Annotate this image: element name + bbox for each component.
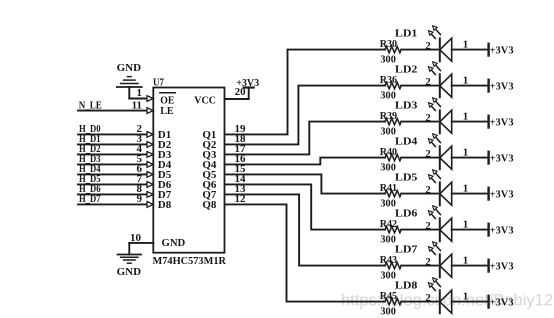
wire LD6 pin 1 to +3V3: [452, 229, 488, 231]
wire LD2 pin 1 to +3V3: [452, 85, 488, 87]
pin 1 input arrow: [147, 96, 153, 102]
pin 15 number label: [235, 163, 247, 175]
IC U7 pin name D2: [158, 139, 172, 151]
IC U7 pin name OE (pin 1): [160, 93, 175, 107]
wire Q1 (pin 19) to R30: [225, 50, 386, 135]
IC U7 pin name LE (pin 11): [160, 105, 174, 117]
net label H_D0: [79, 123, 101, 135]
resistor R40 300: [380, 146, 402, 174]
wire R43 to LD7 pin 2: [401, 265, 439, 267]
IC U7 pin name Q4: [202, 159, 217, 171]
LED designator LD5 label: [395, 172, 418, 184]
power +3V3 terminal (pin 20): [236, 77, 259, 89]
IC U7 pin name D6: [158, 179, 172, 191]
net label N_LE: [79, 99, 102, 111]
svg-text:Q8: Q8: [202, 199, 217, 211]
power +3V3 terminal (LD1): [489, 44, 514, 57]
LED LD8 pin 1 label: [463, 290, 469, 302]
LED LD5 pin 1 label: [463, 182, 469, 194]
svg-text:2: 2: [425, 148, 431, 160]
LED LD8: [428, 278, 451, 314]
LED LD2 pin 1 label: [463, 74, 469, 86]
IC U7 pin name D1: [158, 129, 171, 141]
LED LD1: [428, 26, 451, 62]
pin 14 number label: [235, 173, 247, 185]
wire Q8 (pin 12) to R45: [225, 204, 386, 301]
wire R45 to LD8 pin 2: [401, 301, 439, 303]
wire R39 to LD3 pin 2: [401, 121, 439, 123]
svg-text:LD6: LD6: [395, 208, 418, 220]
svg-text:H_D7: H_D7: [79, 193, 101, 205]
LED designator LD6 label: [395, 208, 418, 220]
svg-text:+3V3: +3V3: [490, 261, 514, 273]
svg-text:U7: U7: [153, 76, 164, 88]
ground (bottom, at pin 10 GND): [117, 255, 142, 278]
svg-text:9: 9: [137, 193, 143, 205]
svg-text:R41: R41: [380, 182, 397, 194]
IC U7 pin name GND (pin 10): [162, 237, 186, 249]
pin 5 input arrow: [147, 162, 153, 168]
pin 17 number label: [235, 143, 247, 155]
LED LD2 pin 2 label: [425, 76, 431, 88]
svg-text:10: 10: [130, 232, 142, 244]
svg-text:11: 11: [132, 99, 142, 111]
svg-text:VCC: VCC: [194, 95, 216, 107]
resistor R45 300: [380, 290, 402, 318]
pin 11 input arrow: [147, 108, 153, 114]
net H_D1 wire: [78, 143, 147, 145]
wire Q5 (pin 15) to R41: [225, 174, 386, 193]
wire Q2 (pin 18) to R36: [225, 86, 386, 145]
LED designator LD4 label: [395, 136, 418, 148]
pin 9 input arrow: [147, 202, 153, 208]
svg-text:1: 1: [463, 146, 469, 158]
net H_D4 wire: [78, 173, 147, 175]
LED LD7 pin 1 label: [463, 254, 469, 266]
wire R36 to LD2 pin 2: [401, 85, 439, 87]
resistor R36 300: [380, 74, 402, 102]
LED LD3 pin 2 label: [425, 112, 431, 124]
LED LD8 pin 2 label: [425, 292, 431, 304]
svg-text:2: 2: [425, 112, 431, 124]
LED LD3: [428, 98, 451, 134]
wire LD7 pin 1 to +3V3: [452, 265, 488, 267]
svg-text:GND: GND: [162, 237, 186, 249]
pin 13 number label: [235, 183, 247, 195]
wire LD8 pin 1 to +3V3: [452, 301, 488, 303]
net label H_D1: [79, 133, 101, 145]
IC U7 pin name VCC (pin 20): [194, 95, 216, 107]
LED LD6 pin 2 label: [425, 220, 431, 232]
power +3V3 terminal (LD8): [489, 296, 514, 309]
pin 19 number label: [235, 123, 247, 135]
net label H_D7: [79, 193, 101, 205]
svg-text:LD3: LD3: [395, 100, 418, 112]
svg-text:R42: R42: [380, 218, 398, 230]
svg-text:N_LE: N_LE: [79, 99, 102, 111]
pin 10 number label: [130, 232, 142, 244]
wire pin 20 to +3V3: [225, 88, 249, 99]
IC U7 pin name D5: [158, 169, 172, 181]
svg-text:1: 1: [463, 182, 469, 194]
IC U7 pin name Q6: [202, 179, 217, 191]
pin 1 number label: [137, 87, 143, 99]
pin 8 number label: [137, 183, 143, 195]
IC U7 pin name D4: [158, 159, 172, 171]
IC U7 M74HC573M1R body: [153, 76, 227, 267]
svg-text:D8: D8: [158, 199, 172, 211]
IC U7 pin name D8: [158, 199, 172, 211]
LED LD4 pin 1 label: [463, 146, 469, 158]
wire Q4 (pin 16) to R40: [225, 158, 386, 165]
pin 4 number label: [137, 143, 143, 155]
wire LD1 pin 1 to +3V3: [452, 49, 488, 51]
net H_D7 wire: [78, 203, 147, 205]
net label H_D2: [79, 143, 101, 155]
svg-text:1: 1: [463, 254, 469, 266]
pin 8 input arrow: [147, 192, 153, 198]
LED designator LD8 label: [395, 280, 418, 292]
svg-text:M74HC573M1R: M74HC573M1R: [153, 255, 227, 267]
svg-text:LE: LE: [160, 105, 174, 117]
svg-text:https://blog.csdn.net/Babiy12: https://blog.csdn.net/Babiy12: [341, 291, 553, 310]
svg-text:R40: R40: [380, 146, 398, 158]
pin 3 number label: [137, 133, 143, 145]
svg-text:R43: R43: [380, 254, 398, 266]
IC U7 pin name Q5: [202, 169, 217, 181]
LED LD1 pin 1 label: [463, 38, 469, 50]
net label H_D3: [79, 153, 101, 165]
wire R41 to LD5 pin 2: [401, 193, 439, 195]
net label H_D4: [79, 163, 101, 175]
svg-text:+3V3: +3V3: [490, 117, 514, 129]
wire Q7 (pin 13) to R43: [225, 194, 386, 265]
svg-text:+3V3: +3V3: [490, 189, 514, 201]
svg-text:+3V3: +3V3: [236, 77, 259, 89]
svg-text:LD2: LD2: [395, 64, 418, 76]
svg-text:+3V3: +3V3: [490, 45, 514, 57]
svg-text:+3V3: +3V3: [490, 81, 514, 93]
svg-text:2: 2: [425, 220, 431, 232]
LED LD4: [428, 134, 451, 170]
IC U7 pin name Q1: [202, 129, 216, 141]
svg-text:1: 1: [137, 87, 143, 99]
svg-text:LD7: LD7: [395, 244, 418, 256]
wire LD3 pin 1 to +3V3: [452, 121, 488, 123]
svg-text:1: 1: [463, 218, 469, 230]
pin 20 number label: [235, 86, 247, 98]
resistor R43 300: [380, 254, 402, 282]
wire pin 10 to ground: [129, 243, 153, 255]
svg-text:LD1: LD1: [395, 28, 418, 40]
pin 7 number label: [137, 173, 143, 185]
net H_D6 wire: [78, 193, 147, 195]
net H_D5 wire: [78, 183, 147, 185]
svg-text:1: 1: [463, 110, 469, 122]
pin 6 input arrow: [147, 172, 153, 178]
svg-text:GND: GND: [117, 266, 142, 278]
IC U7 pin name Q8: [202, 199, 217, 211]
IC U7 pin name Q2: [202, 139, 217, 151]
ground (top, at pin 1 OE): [117, 62, 142, 87]
svg-text:12: 12: [235, 193, 247, 205]
svg-text:1: 1: [463, 74, 469, 86]
LED LD3 pin 1 label: [463, 110, 469, 122]
power +3V3 terminal (LD4): [489, 152, 514, 165]
svg-text:2: 2: [425, 184, 431, 196]
wire Q6 (pin 14) to R42: [225, 184, 386, 229]
LED LD4 pin 2 label: [425, 148, 431, 160]
IC U7 pin name Q7: [202, 189, 217, 201]
svg-text:+3V3: +3V3: [490, 153, 514, 165]
LED LD6: [428, 206, 451, 242]
wire Q3 (pin 17) to R39: [225, 122, 386, 155]
pin 9 number label: [137, 193, 143, 205]
power +3V3 terminal (LD2): [489, 80, 514, 93]
svg-text:2: 2: [425, 76, 431, 88]
wire LD5 pin 1 to +3V3: [452, 193, 488, 195]
resistor R39 300: [380, 110, 402, 138]
pin 18 number label: [235, 133, 247, 145]
svg-text:LD5: LD5: [395, 172, 418, 184]
LED LD5: [428, 170, 451, 206]
LED designator LD1 label: [395, 28, 418, 40]
net label H_D5: [79, 173, 101, 185]
LED designator LD3 label: [395, 100, 418, 112]
wire LD4 pin 1 to +3V3: [452, 157, 488, 159]
pin 7 input arrow: [147, 182, 153, 188]
power +3V3 terminal (LD7): [489, 260, 514, 273]
wire ground to pin 1: [129, 87, 147, 99]
svg-text:2: 2: [425, 256, 431, 268]
svg-text:1: 1: [463, 38, 469, 50]
net H_D0 wire: [78, 133, 147, 135]
pin 3 input arrow: [147, 142, 153, 148]
wire R40 to LD4 pin 2: [401, 157, 439, 159]
svg-text:R39: R39: [380, 110, 398, 122]
power +3V3 terminal (LD3): [489, 116, 514, 129]
pin 2 input arrow: [147, 132, 153, 138]
wire R30 to LD1 pin 2: [401, 49, 439, 51]
net label H_D6: [79, 183, 101, 195]
pin 5 number label: [137, 153, 143, 165]
pin 2 number label: [137, 123, 143, 135]
resistor R41 300: [380, 182, 402, 210]
pin 16 number label: [235, 153, 247, 165]
resistor R30 300: [380, 38, 402, 66]
svg-text:+3V3: +3V3: [490, 225, 514, 237]
power +3V3 terminal (LD5): [489, 188, 514, 201]
pin 6 number label: [137, 163, 143, 175]
LED LD7 pin 2 label: [425, 256, 431, 268]
LED designator LD2 label: [395, 64, 418, 76]
resistor R42 300: [380, 218, 402, 246]
IC U7 pin name Q3: [202, 149, 217, 161]
IC U7 pin name D3: [158, 149, 172, 161]
LED LD1 pin 2 label: [425, 40, 431, 52]
LED LD6 pin 1 label: [463, 218, 469, 230]
svg-text:GND: GND: [117, 62, 142, 74]
svg-text:LD4: LD4: [395, 136, 418, 148]
power +3V3 terminal (LD6): [489, 224, 514, 237]
svg-text:R36: R36: [380, 74, 398, 86]
IC U7 pin name D7: [158, 189, 172, 201]
wire R42 to LD6 pin 2: [401, 229, 439, 231]
net N_LE wire: [78, 110, 147, 112]
svg-text:R30: R30: [380, 38, 398, 50]
LED LD5 pin 2 label: [425, 184, 431, 196]
net H_D2 wire: [78, 153, 147, 155]
net H_D3 wire: [78, 163, 147, 165]
pin 12 number label: [235, 193, 247, 205]
svg-text:2: 2: [425, 40, 431, 52]
LED LD7: [428, 242, 451, 277]
LED LD2: [428, 62, 451, 98]
pin 4 input arrow: [147, 152, 153, 158]
LED designator LD7 label: [395, 244, 418, 256]
pin 11 number label: [132, 99, 142, 111]
